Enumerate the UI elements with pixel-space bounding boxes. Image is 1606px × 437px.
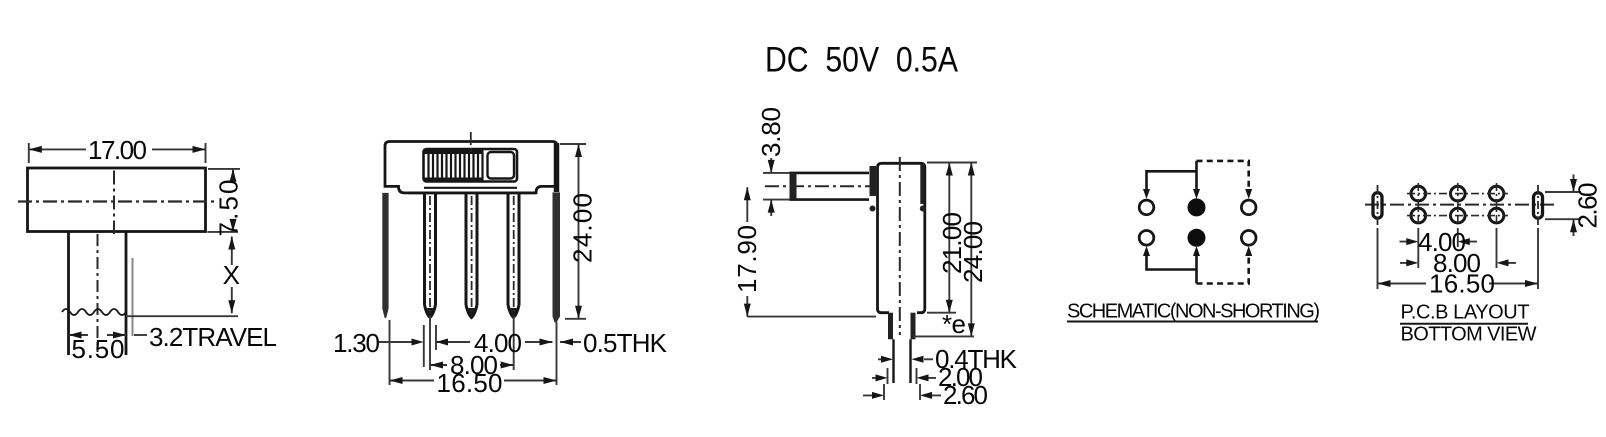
right slot	[1534, 193, 1543, 219]
stem left edge	[67, 232, 70, 356]
right tab	[553, 192, 561, 322]
0.4THK arrows	[878, 358, 933, 360]
2.60 arrows	[863, 394, 941, 396]
dim 5.50 line and arrows	[69, 334, 127, 336]
pin 2	[466, 192, 477, 317]
left tab	[382, 193, 388, 318]
svg-text:P.C.B LAYOUT: P.C.B LAYOUT	[1401, 302, 1530, 324]
knob ribs	[429, 153, 483, 178]
dim 17.00 line	[29, 148, 206, 150]
dim 8.00 line	[430, 364, 514, 366]
flange	[870, 166, 877, 196]
pin 2 centerline	[471, 196, 473, 316]
svg-text:*e: *e	[942, 309, 966, 339]
solid bracket bottom	[1147, 252, 1197, 284]
top extension line	[927, 162, 977, 164]
row crosses	[1407, 194, 1508, 216]
pin extension lines below	[390, 316, 557, 385]
top centerline tick	[470, 132, 472, 152]
pad hole r1c1	[1411, 186, 1426, 201]
vertical centerline	[113, 171, 115, 235]
dim 1.30 line and arrow	[379, 341, 413, 343]
body outline (front view)	[385, 142, 557, 193]
dim 17.00 arrows	[29, 146, 206, 153]
dim 17.90 line	[746, 187, 748, 316]
knob centerline	[765, 185, 872, 187]
*e extension line	[914, 335, 974, 337]
svg-text:DC 50V 0.5A: DC 50V 0.5A	[765, 41, 959, 80]
contact circles row1	[1139, 200, 1154, 215]
3.2TRAVEL leader	[134, 334, 147, 336]
pin 3	[508, 192, 519, 317]
flange foot	[870, 206, 876, 212]
body right edge thick	[554, 143, 560, 192]
solid bracket top	[1147, 161, 1197, 193]
dim 2.60 ext lines	[1545, 192, 1581, 219]
pad hole r2c3	[1489, 208, 1504, 223]
svg-text:17.00: 17.00	[88, 135, 147, 165]
svg-text:2.60: 2.60	[943, 380, 988, 410]
dim 7.50 arrows	[230, 169, 237, 232]
21.00 bottom extension line	[927, 312, 956, 314]
schematic underline	[1067, 321, 1318, 323]
svg-text:3.2TRAVEL: 3.2TRAVEL	[149, 322, 277, 352]
body outline (top view)	[28, 168, 206, 232]
arrows to contacts	[1143, 189, 1252, 199]
pcb horizontal centerline	[1365, 204, 1556, 206]
knob cap	[424, 149, 484, 155]
svg-text:BOTTOM VIEW: BOTTOM VIEW	[1401, 324, 1537, 346]
dashed top	[1197, 161, 1249, 193]
pad hole r2c1	[1411, 208, 1426, 223]
pad hole r1c2	[1451, 186, 1466, 201]
svg-text:3.80: 3.80	[756, 107, 786, 157]
svg-text:7.50: 7.50	[214, 180, 244, 237]
dim 21.00 line	[948, 163, 950, 313]
dim 4.00 line and arrows	[436, 341, 470, 343]
17.90 bottom extension line	[747, 316, 876, 318]
X dim arrows	[228, 237, 235, 314]
knob recess	[488, 152, 515, 179]
dim 24.00 extension lines	[560, 144, 586, 319]
2.00 arrows	[872, 377, 936, 379]
svg-text:0.5THK: 0.5THK	[583, 328, 668, 358]
wavy break line	[62, 309, 126, 315]
dashed bottom	[1197, 252, 1249, 284]
svg-text:16.50: 16.50	[437, 368, 503, 398]
neck left wall	[888, 313, 893, 340]
pad hole r1c3	[1489, 186, 1504, 201]
contact circles row2	[1139, 231, 1154, 246]
dim 24.00 line	[578, 144, 580, 319]
2.60 ext lines	[884, 384, 920, 400]
dim 24.00 line	[970, 163, 972, 337]
2.00 ext lines	[888, 368, 917, 384]
travel ghost line	[132, 258, 134, 336]
slot centerlines	[1378, 185, 1539, 228]
svg-text:1.30: 1.30	[333, 328, 380, 358]
dim 1.30 ext lines	[424, 325, 436, 367]
body outline (side view)	[878, 163, 925, 312]
dim 3.80 line	[770, 158, 772, 216]
dim 16.50	[1378, 283, 1539, 285]
0.5THK leader	[525, 341, 581, 343]
body centerline	[899, 157, 901, 335]
svg-text:SCHEMATIC(NON-SHORTING): SCHEMATIC(NON-SHORTING)	[1067, 301, 1320, 323]
pin below neck	[894, 339, 911, 383]
horizontal centerline	[18, 200, 214, 202]
X dim extension line	[126, 232, 238, 316]
svg-text:X: X	[223, 260, 240, 290]
pin 1 centerline	[429, 196, 431, 316]
right foot	[920, 206, 926, 212]
slider bar under knob	[424, 187, 517, 189]
svg-text:17.90: 17.90	[732, 225, 762, 293]
dim 7.50 extension line	[208, 168, 240, 170]
right metal strip	[920, 164, 924, 204]
knob bottom band	[424, 178, 484, 182]
svg-text:24.00: 24.00	[958, 221, 988, 283]
svg-text:2.60: 2.60	[1573, 183, 1603, 229]
dim 3.80 extension lines	[763, 173, 790, 200]
X dim line	[231, 237, 233, 314]
pcb label underline	[1400, 323, 1528, 325]
neck right wall	[911, 313, 916, 340]
pin 1	[425, 192, 436, 317]
stem centerline	[97, 234, 99, 352]
dim 4.00	[1400, 241, 1478, 243]
left slot	[1373, 193, 1382, 219]
svg-text:24.00: 24.00	[568, 193, 598, 263]
pad hole r2c2	[1451, 208, 1466, 223]
svg-text:16.50: 16.50	[1429, 269, 1495, 299]
pin 3 centerline	[513, 196, 515, 316]
knob end cap	[790, 173, 797, 200]
knob slot outer	[424, 149, 518, 182]
dim 7.50 line	[232, 169, 234, 176]
dim 8.00	[1400, 262, 1516, 264]
svg-text:5.50: 5.50	[72, 334, 125, 364]
stem right edge	[125, 232, 128, 356]
dim 17.00 extension lines	[29, 143, 206, 163]
dim 16.50 line	[390, 380, 557, 382]
knob cylinder	[790, 173, 870, 200]
dim 24.00 arrows	[575, 144, 582, 319]
dim 2.60 lines/arrows	[1573, 174, 1575, 236]
ext lines below pads	[1378, 228, 1539, 289]
